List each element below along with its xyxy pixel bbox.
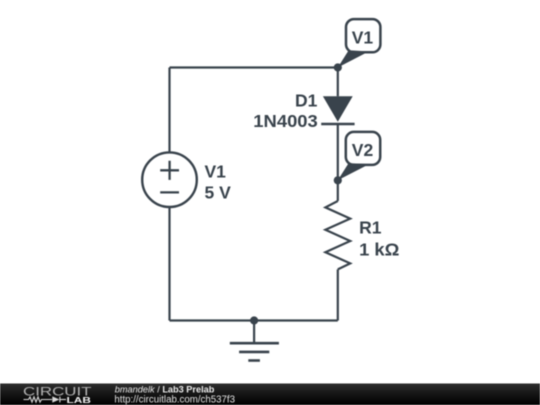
- svg-text:V2: V2: [352, 140, 374, 160]
- svg-text:LAB: LAB: [67, 395, 91, 405]
- svg-text:V1: V1: [352, 28, 374, 48]
- svg-text:1 kΩ: 1 kΩ: [359, 240, 399, 260]
- svg-text:D1: D1: [295, 91, 318, 111]
- svg-text:1N4003: 1N4003: [253, 111, 318, 131]
- svg-text:V1: V1: [205, 162, 227, 182]
- svg-text:R1: R1: [359, 218, 382, 238]
- svg-text:http://circuitlab.com/ch537f3: http://circuitlab.com/ch537f3: [114, 394, 235, 405]
- svg-text:bmandelk / Lab3 Prelab: bmandelk / Lab3 Prelab: [115, 385, 215, 395]
- svg-text:5 V: 5 V: [205, 182, 232, 202]
